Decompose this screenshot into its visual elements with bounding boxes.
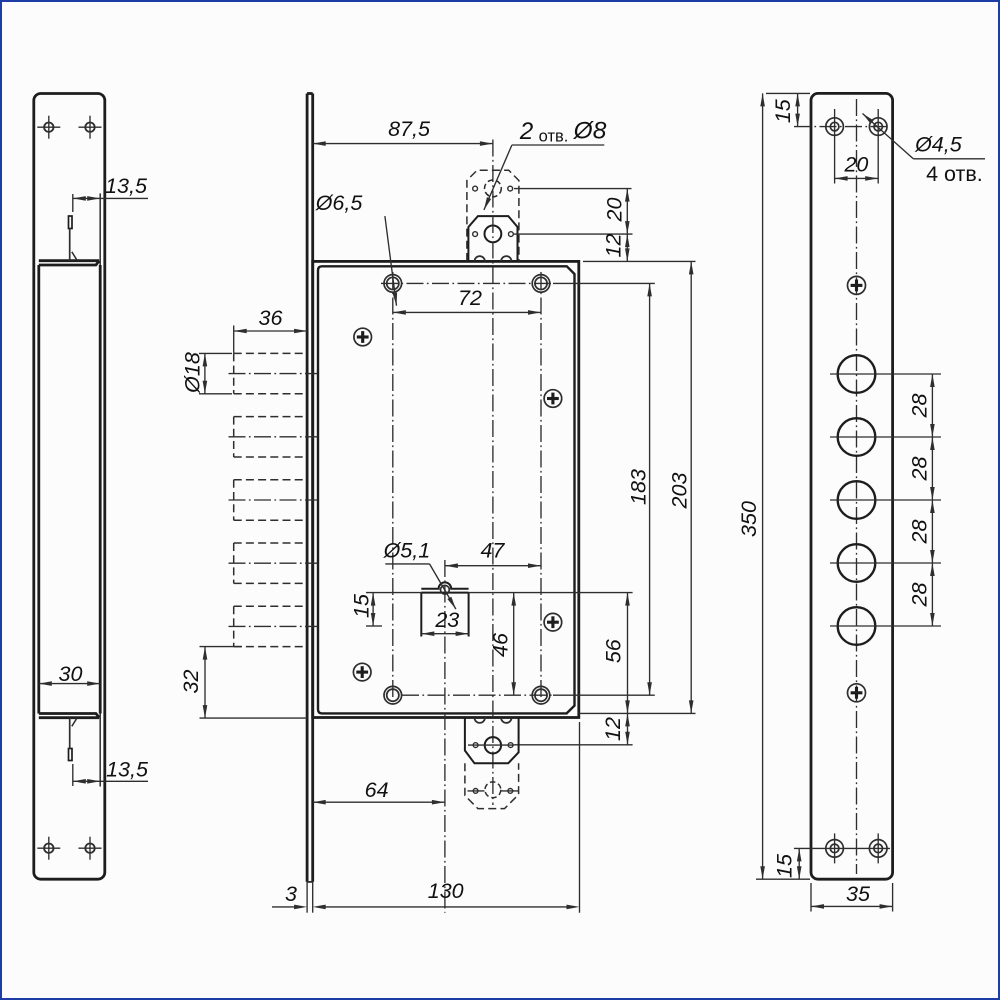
- dimension 15 top right: [766, 93, 810, 126]
- phillips screw upper-right: [544, 390, 562, 408]
- svg-text:72: 72: [458, 286, 482, 310]
- bolt hole circle 2: [830, 418, 941, 456]
- svg-text:20: 20: [843, 153, 868, 177]
- svg-text:56: 56: [602, 639, 626, 663]
- cylinder cam box: [421, 582, 468, 636]
- dimension 23: [421, 608, 468, 636]
- deadbolt 2 (hidden): [229, 417, 318, 457]
- svg-text:13,5: 13,5: [105, 174, 148, 198]
- dimension 15 bottom right: [773, 848, 802, 879]
- left view case bottom lip: [39, 714, 99, 718]
- bottom bracket rivets: [475, 718, 485, 723]
- svg-text:12: 12: [601, 717, 625, 741]
- label d6,5 with leader: [315, 191, 397, 306]
- extension line through cam top: [366, 592, 421, 594]
- dimension 64: [313, 778, 445, 805]
- svg-text:87,5: 87,5: [388, 117, 431, 141]
- top bracket hole circle: [485, 226, 502, 243]
- bottom bracket hidden circle: [485, 782, 501, 798]
- bottom bracket solid part: [465, 718, 519, 764]
- svg-text:203: 203: [668, 473, 692, 510]
- right view top hole top-right: [869, 109, 887, 184]
- dimension 13,5 top: [73, 174, 148, 212]
- svg-text:Ø6,5: Ø6,5: [315, 191, 364, 215]
- svg-text:23: 23: [434, 608, 459, 632]
- top bracket hidden hole dashed circle: [485, 180, 502, 197]
- dimensions 20 and 12 top right: [514, 189, 633, 262]
- center view faceplate edge-on: [307, 94, 313, 913]
- bolt hole circle 4: [830, 544, 941, 582]
- right view phillips screw upper: [848, 276, 866, 294]
- left view latch bolt bottom: [69, 718, 78, 761]
- svg-text:4 отв.: 4 отв.: [926, 162, 983, 186]
- svg-text:Ø4,5: Ø4,5: [914, 133, 963, 157]
- svg-text:32: 32: [179, 670, 203, 694]
- dimension 12 bottom: [514, 713, 633, 744]
- svg-text:28: 28: [908, 583, 932, 608]
- svg-text:350: 350: [737, 501, 761, 537]
- dimension 3 and 130: [272, 722, 580, 913]
- svg-text:30: 30: [59, 662, 83, 686]
- bolt hole circle 1: [830, 355, 941, 393]
- bottom bracket hidden small holes: [468, 789, 519, 794]
- dimension 350: [737, 93, 810, 879]
- dimension 13,5 bottom: [73, 758, 149, 787]
- bottom bracket small holes: [473, 743, 478, 748]
- bolt hole circle 5: [830, 607, 941, 645]
- left view mounting hole bottom-left: [37, 837, 60, 860]
- dimension 72: [393, 286, 541, 315]
- case top mounting holes: [384, 275, 550, 293]
- dimension 30: [39, 662, 100, 686]
- dimension d18: [181, 352, 233, 394]
- deadbolt 1 (hidden): [229, 353, 318, 393]
- left view lock case side: right edge + extension line: [99, 193, 101, 786]
- svg-text:20: 20: [603, 198, 627, 223]
- bracket vertical centerline: [492, 140, 494, 806]
- dimension 32: [179, 647, 307, 719]
- top bracket upper small holes: [473, 186, 478, 191]
- left view: mounting plate side: [34, 94, 105, 880]
- bolt column centerline right: [540, 272, 542, 705]
- phillips screw upper-left: [354, 328, 372, 346]
- deadbolt 5 (hidden): [229, 606, 318, 646]
- svg-text:46: 46: [489, 633, 513, 657]
- svg-text:28: 28: [908, 520, 932, 545]
- left view mounting hole top-left: [37, 116, 60, 139]
- svg-text:36: 36: [259, 306, 283, 330]
- top bracket solid part: [468, 216, 517, 261]
- svg-text:Ø5,1: Ø5,1: [383, 539, 431, 563]
- dimension 46: [489, 593, 517, 696]
- right view bottom hole bottom-right: [869, 833, 887, 863]
- right view vertical centerline: [856, 99, 858, 874]
- bolt hole circle 3: [830, 481, 941, 519]
- svg-text:28: 28: [908, 457, 932, 482]
- leader 2 otv d8: [484, 118, 607, 211]
- svg-text:15: 15: [350, 593, 374, 618]
- top bracket hidden outline (dashed): [467, 170, 519, 261]
- deadbolt 4 (hidden): [229, 543, 318, 583]
- dimension 203: [579, 261, 696, 713]
- bottom holes centerline: [402, 694, 655, 696]
- right view top holes line: [794, 126, 890, 128]
- bottom bracket hidden part (dashed): [465, 763, 519, 808]
- dimension 47: [445, 539, 541, 569]
- right view phillips screw lower: [848, 684, 866, 702]
- left view case top lip: [39, 261, 99, 265]
- leader d4,5: [863, 114, 986, 187]
- cam hole d5,1: [441, 585, 450, 594]
- left view latch bolt top: [69, 216, 78, 261]
- svg-text:13,5: 13,5: [106, 758, 149, 782]
- deadbolt 3 (hidden): [229, 480, 318, 520]
- left view mounting hole bottom-right: [79, 837, 102, 860]
- cylinder centerline: [444, 560, 446, 913]
- dimension 20 right: [835, 153, 879, 181]
- lock case outer outline: [313, 261, 579, 717]
- phillips screw lower-right: [544, 613, 562, 631]
- svg-text:Ø8: Ø8: [573, 118, 607, 145]
- dimension 56: [602, 593, 630, 714]
- right view bottom hole bottom-left: [826, 833, 844, 863]
- svg-text:15: 15: [771, 98, 795, 123]
- bottom bracket small holes line: [468, 744, 514, 746]
- svg-text:12: 12: [602, 234, 626, 258]
- svg-text:2: 2: [519, 118, 533, 145]
- dimensions 28 chain: [908, 374, 935, 626]
- svg-text:Ø18: Ø18: [181, 352, 205, 394]
- bottom bracket hole circle: [485, 737, 501, 753]
- dimension 183: [627, 283, 652, 695]
- right view top hole top-left: [826, 109, 844, 184]
- dimension 87,5: [313, 117, 493, 146]
- top bracket rivets on case edge: [475, 256, 485, 261]
- svg-text:15: 15: [773, 853, 797, 878]
- svg-text:47: 47: [480, 539, 505, 563]
- case bottom holes: [384, 686, 550, 704]
- right view strike plate: [811, 93, 893, 879]
- leader d5,1: [383, 539, 456, 610]
- dimension 35: [811, 882, 893, 912]
- svg-text:3: 3: [285, 882, 297, 906]
- dimension 36: [234, 306, 307, 353]
- left view lock case side: left edge: [37, 265, 40, 714]
- top bracket lower small holes: [473, 232, 478, 237]
- bolt column centerline left: [392, 272, 394, 705]
- lock case inner outline: [318, 266, 575, 713]
- right view bottom holes line: [794, 847, 890, 849]
- svg-text:130: 130: [428, 879, 464, 903]
- svg-text:183: 183: [627, 469, 651, 505]
- left view mounting hole top-right: [79, 116, 102, 139]
- dimension 15 center: [350, 593, 383, 626]
- svg-text:35: 35: [846, 882, 871, 906]
- svg-text:28: 28: [908, 394, 932, 419]
- svg-text:отв.: отв.: [539, 128, 569, 146]
- svg-text:64: 64: [365, 778, 389, 802]
- phillips screw lower-left: [353, 663, 371, 681]
- top holes centerline: [381, 282, 655, 284]
